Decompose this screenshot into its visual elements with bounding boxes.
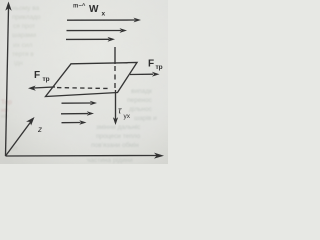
svg-text:F: F [148,59,154,70]
svg-text:процеси тепло: процеси тепло [96,133,141,140]
svg-text:перенос: перенос [127,97,153,104]
svg-text:тр: тр [156,64,163,71]
svg-text:випадк: випадк [131,88,152,95]
svg-text:дільнос: дільнос [129,105,153,113]
svg-text:z: z [37,125,42,134]
svg-text:m−^: m−^ [73,4,86,10]
svg-text:шарами: шарами [12,32,37,39]
svg-text:змінни дальніс: змінни дальніс [96,123,141,131]
svg-text:W: W [89,4,99,15]
svg-text:пов'язани обмін: пов'язани обмін [91,141,139,149]
svg-text:частина рідини: частина рідини [87,156,133,164]
svg-text:ня: ня [1,113,9,120]
svg-text:ньому ва: ньому ва [12,5,40,12]
svg-text:x: x [102,11,106,18]
svg-text:прикладо: прикладо [12,14,41,21]
svg-text:yx: yx [124,113,131,120]
svg-text:тертя в: тертя в [12,51,34,58]
svg-text:тр: тр [43,76,50,83]
svg-text:ідн: ідн [14,59,23,67]
svg-text:шарів и: шарів и [134,114,157,122]
svg-text:F: F [34,70,40,81]
svg-text:их сил: их сил [13,42,33,49]
svg-text:ся прот: ся прот [13,23,35,30]
